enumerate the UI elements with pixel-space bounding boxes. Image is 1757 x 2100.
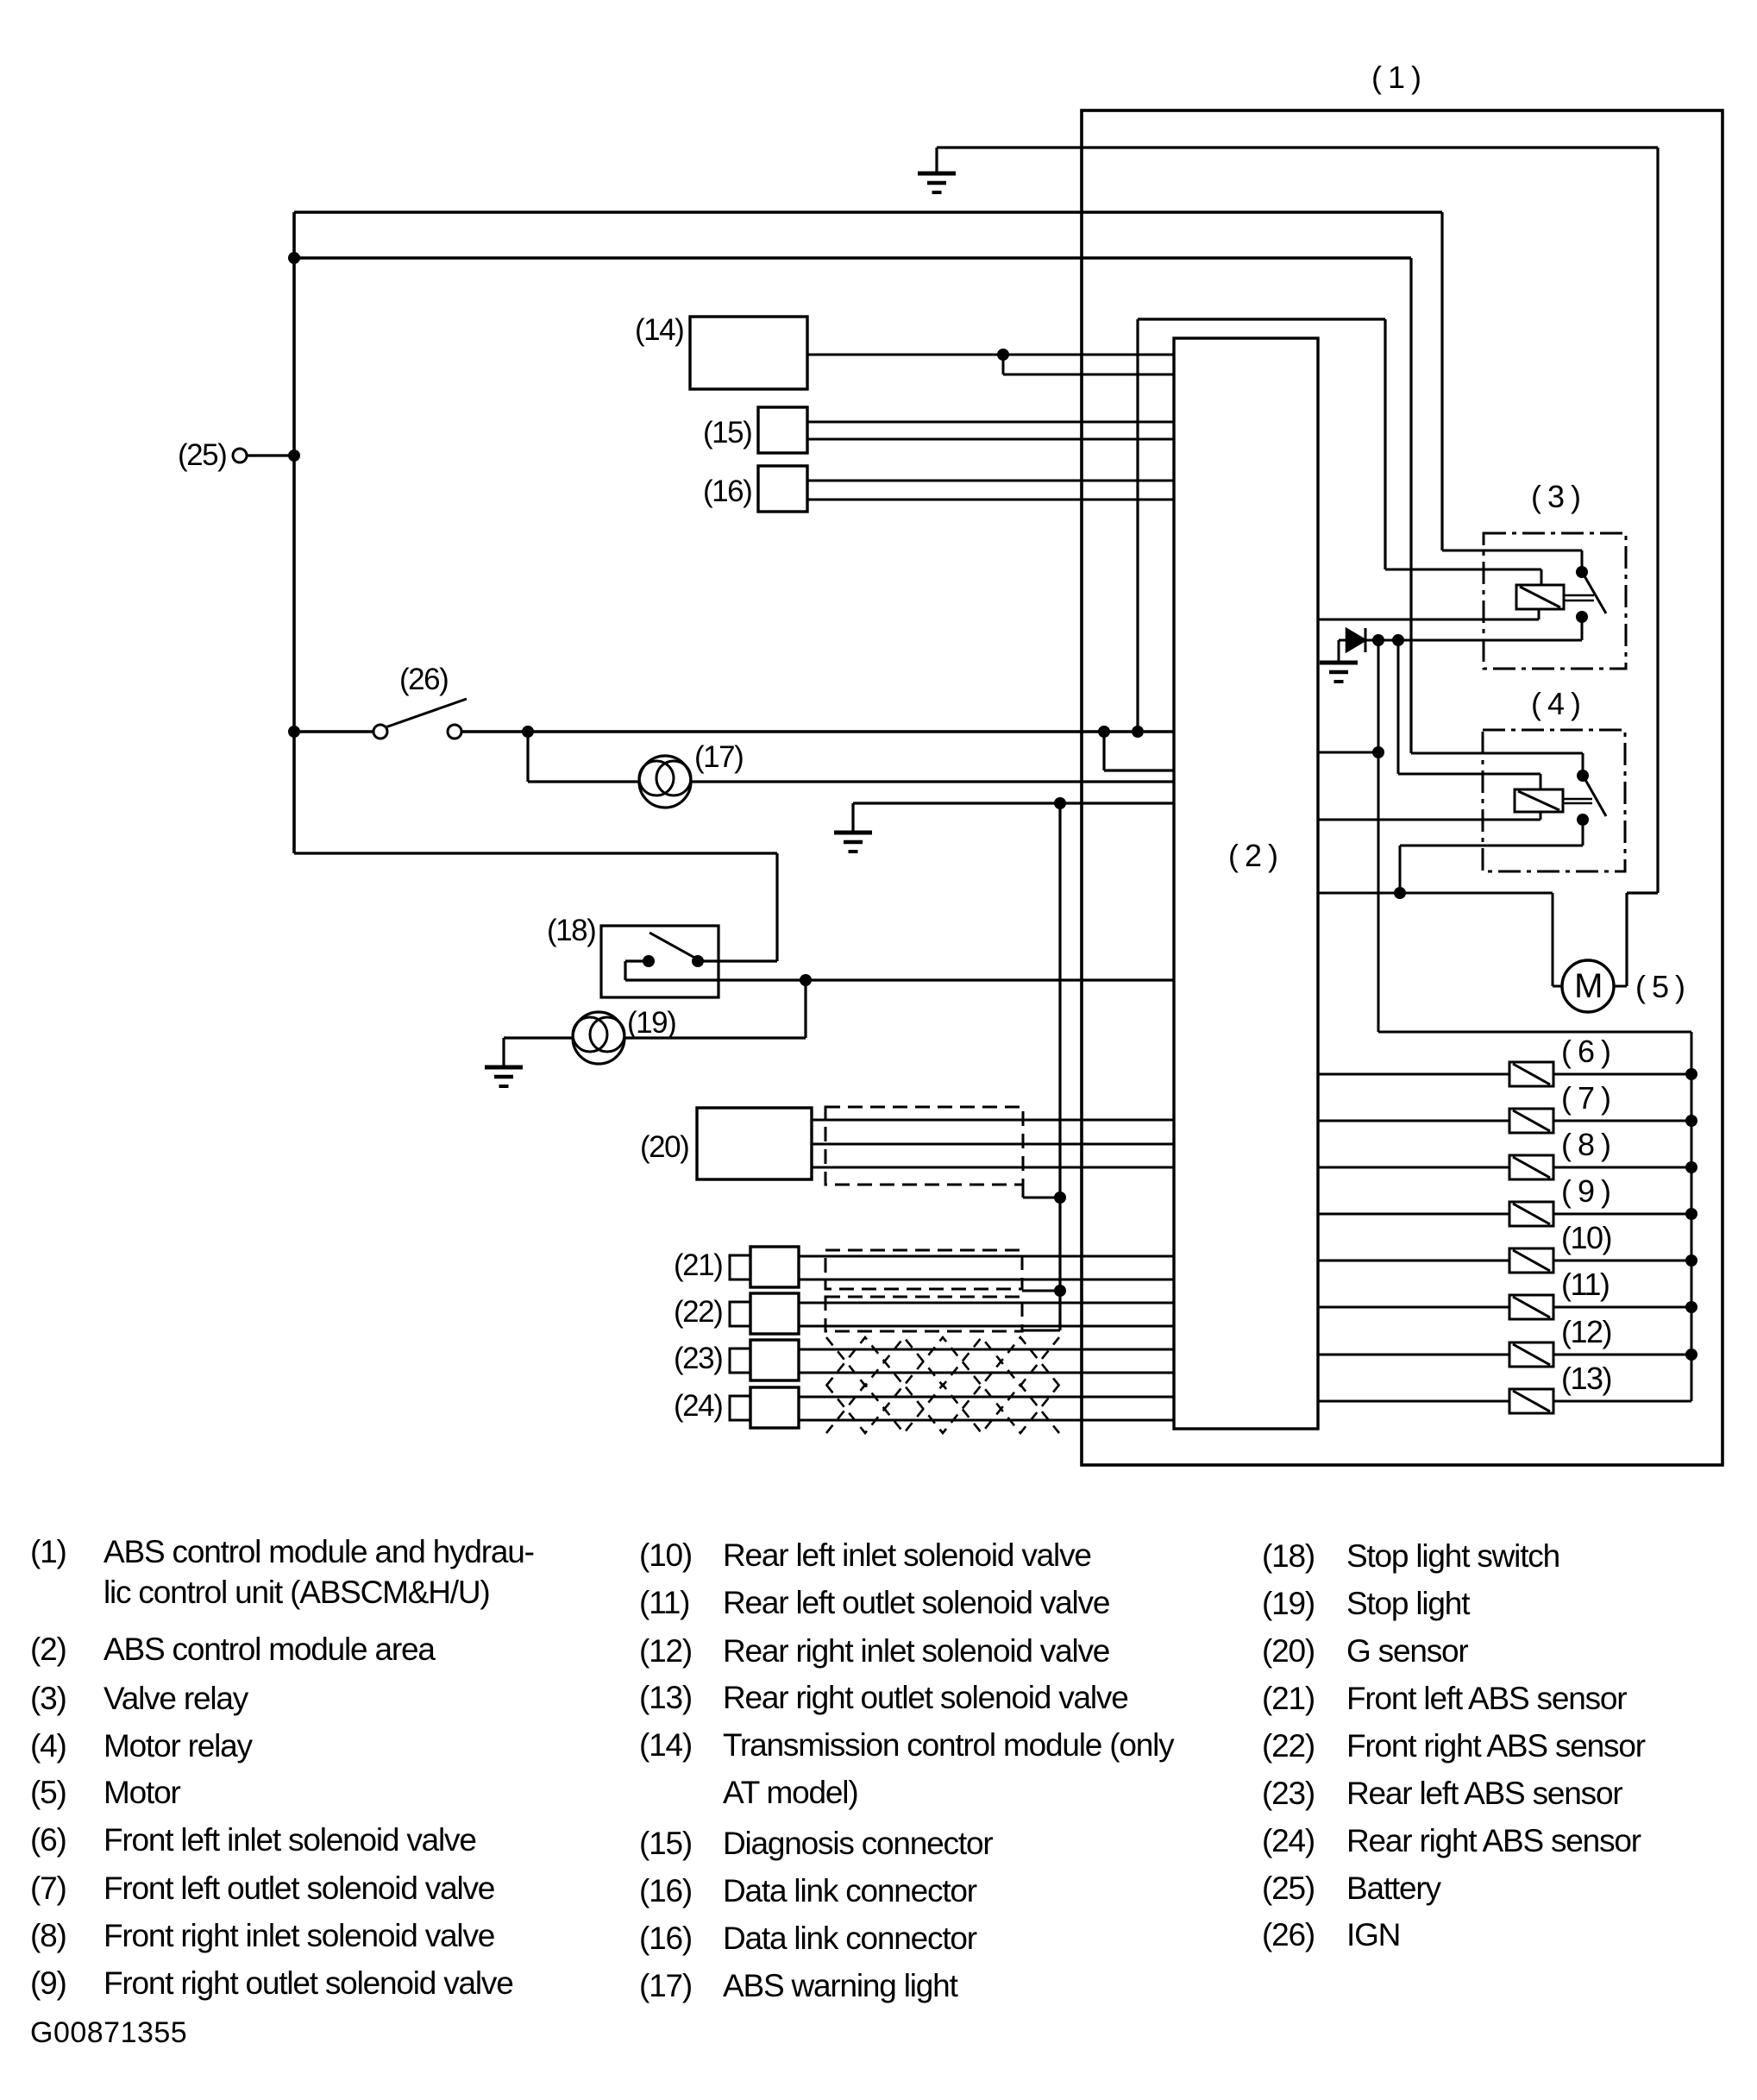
wire diode anode lead [1339, 639, 1346, 642]
wire motor return bus vertical x=1922 [1656, 148, 1659, 893]
twisted pair marks sensor 23 (a) [826, 1337, 1059, 1386]
node lamp17 tap [522, 726, 534, 738]
wire switch18 inner drop [624, 961, 626, 980]
ground (top, ABSCM ground) [918, 173, 956, 192]
svg-text:(16): (16) [703, 475, 751, 508]
wire shield drain 21 [1022, 1290, 1060, 1292]
svg-text:(19): (19) [627, 1006, 675, 1040]
wire solenoid (13) output [1553, 1400, 1691, 1403]
wire sensor (22) lower y=1537 [799, 1325, 1174, 1328]
relay (3) blade [1584, 575, 1606, 613]
wire (16) upper y=557 [807, 480, 1174, 482]
svg-text:(5): (5) [30, 1775, 66, 1810]
svg-text:(22): (22) [674, 1295, 722, 1329]
svg-text:(24): (24) [674, 1389, 722, 1423]
wire lamp17 drop x=612 [526, 732, 529, 782]
wire sensor (23) lower y=1591 [799, 1372, 1174, 1374]
svg-text:(15): (15) [703, 416, 751, 450]
switch (26) left contact [373, 725, 387, 739]
twisted pair marks sensor 23 (b) [826, 1337, 1059, 1386]
wire solenoid common vertical x=1598 [1377, 640, 1380, 1032]
wire solenoid (6) input y=1245 [1318, 1073, 1509, 1076]
sensor (22) small connector [730, 1302, 750, 1326]
relay (3) coil [1516, 585, 1564, 609]
svg-text:(25): (25) [1262, 1871, 1315, 1906]
G sensor (20) box [697, 1108, 812, 1179]
svg-text:(13): (13) [639, 1680, 692, 1715]
switch (18) right contact [692, 955, 704, 967]
wire shield/ground y=931 to box2 [853, 802, 1174, 804]
wire (15) lower y=509 [807, 438, 1174, 441]
wire battery terminal to bus [247, 454, 294, 456]
wire solenoid (10) input y=1461 [1318, 1260, 1509, 1262]
sensor (23) connector body [750, 1340, 799, 1380]
wire relay3 contact feed y=638 [1442, 550, 1582, 552]
battery terminal (25) [233, 449, 247, 462]
svg-text:(1): (1) [30, 1534, 66, 1569]
wire lamp19 drop x=934 [804, 980, 806, 1038]
wire sensor (24) lower y=1646 [799, 1419, 1174, 1422]
wire solenoid (11) output [1553, 1306, 1691, 1309]
svg-text:(10): (10) [1561, 1220, 1611, 1255]
wire TCM branch drop [1002, 355, 1005, 374]
lamp (17) ABS warning light [639, 756, 691, 808]
wire sensor (24) upper y=1619 [799, 1396, 1174, 1399]
motor relay (4) dash-dot box [1483, 730, 1625, 871]
wire battery second line y=299 [294, 256, 1411, 259]
wire relay3 contact riser [1581, 550, 1584, 572]
svg-text:(26): (26) [1262, 1917, 1315, 1952]
svg-text:(18): (18) [1262, 1538, 1315, 1574]
relay (3) plunger link upper [1564, 594, 1594, 597]
wire motor left stub [1553, 985, 1562, 988]
diode cathode bar [1365, 628, 1367, 652]
wire relay4 coil top feed y=897 [1398, 773, 1541, 776]
wire solenoid (12) output [1553, 1354, 1691, 1356]
node IGN monitor tap [1098, 726, 1110, 738]
svg-text:(12): (12) [639, 1633, 692, 1669]
wire lamp19 right lead [624, 1036, 806, 1039]
wire ground17 stem [851, 803, 854, 832]
svg-text:(11): (11) [639, 1585, 689, 1620]
sensor (21) connector body [750, 1247, 799, 1287]
wire solenoid (12) input y=1570 [1318, 1354, 1509, 1356]
solenoid valve (12) [1509, 1342, 1553, 1367]
svg-text:G00871355: G00871355 [30, 2016, 187, 2049]
wire solenoid (13) input y=1624 [1318, 1400, 1509, 1403]
ground (stop light) [485, 1067, 523, 1086]
wire relay3 coil feed vertical x=1606 [1384, 319, 1386, 569]
svg-text:(14): (14) [635, 313, 683, 347]
node battery junction [288, 450, 300, 462]
switch (18) stop light switch box [601, 926, 718, 997]
node relay4 output on motor wire [1394, 887, 1406, 899]
wire motor return jog y=1035 [1627, 891, 1658, 894]
svg-text:(20): (20) [640, 1130, 688, 1164]
wire solenoid (7) input y=1299 [1318, 1120, 1509, 1122]
wire relay3 output riser [1581, 617, 1584, 640]
node G shield junction [1054, 1191, 1066, 1204]
svg-text:G sensor: G sensor [1346, 1633, 1468, 1669]
svg-text:Front left inlet solenoid valv: Front left inlet solenoid valve [104, 1822, 476, 1858]
svg-text:Rear left inlet solenoid valve: Rear left inlet solenoid valve [723, 1537, 1091, 1573]
wire (16) lower y=579 [807, 499, 1174, 501]
solenoid valve (6) [1509, 1062, 1553, 1086]
svg-text:(4): (4) [30, 1728, 66, 1764]
wire relay3 coil top riser [1541, 569, 1543, 585]
wire sensor (23) upper y=1564 [799, 1349, 1174, 1351]
wire ground19 stem [502, 1038, 505, 1066]
wire x=1280 down [1102, 732, 1105, 770]
svg-text:(25): (25) [178, 438, 226, 472]
wire relay4 coil bottom y=950 from box2 [1318, 819, 1541, 821]
wire relay4 output y=980 [1400, 845, 1583, 847]
solenoid valve (7) [1509, 1109, 1553, 1133]
svg-text:(21): (21) [1262, 1681, 1315, 1716]
solenoid valve (8) [1509, 1155, 1553, 1179]
wire relay4 contact feed vertical x=1636 [1409, 258, 1412, 753]
relay (4) plunger link lower [1563, 802, 1592, 805]
sensor (24) connector body [750, 1387, 799, 1428]
node shield bus top [1054, 797, 1066, 809]
relay (3) plunger link lower [1564, 600, 1594, 602]
relay (4) blade [1584, 778, 1606, 816]
wire x=1319 up to y=370 [1136, 319, 1139, 732]
wire lamp19 left lead [504, 1036, 573, 1039]
node stop light tap [800, 974, 812, 986]
switch (18) blade [649, 933, 698, 959]
TCM (14) box [690, 317, 807, 389]
svg-text:( 5 ): ( 5 ) [1635, 969, 1685, 1004]
wire IGN to switch 26 [294, 730, 373, 732]
wire relay4 coil bottom riser [1540, 812, 1542, 820]
svg-text:Front right inlet solenoid val: Front right inlet solenoid valve [104, 1918, 494, 1953]
svg-text:Motor: Motor [104, 1775, 180, 1810]
svg-text:(11): (11) [1561, 1267, 1609, 1302]
wire G sensor bottom y=1353 [812, 1166, 1174, 1169]
diagnosis connector (15) box [758, 407, 807, 453]
svg-text:( 2 ): ( 2 ) [1228, 838, 1277, 873]
switch (26) blade [386, 699, 467, 727]
sensor (21) small connector [730, 1255, 750, 1279]
svg-text:(10): (10) [639, 1537, 692, 1573]
svg-text:Diagnosis connector: Diagnosis connector [723, 1826, 993, 1861]
svg-text:(12): (12) [1561, 1314, 1611, 1349]
node solenoid (11) on common bus [1685, 1301, 1697, 1313]
wire sensor (22) upper y=1510 [799, 1302, 1174, 1305]
node solenoid (10) on common bus [1685, 1254, 1697, 1267]
node solenoid (8) on common bus [1685, 1161, 1697, 1173]
sensor (22) connector body [750, 1293, 799, 1334]
svg-text:(13): (13) [1561, 1361, 1611, 1396]
wire solenoid (11) input y=1515 [1318, 1306, 1509, 1309]
wire stop light y=1136 to box2 [625, 978, 1174, 981]
wire solenoid common bus x=1961 [1691, 1032, 1693, 1401]
svg-text:(23): (23) [1262, 1776, 1315, 1811]
wire motor right riser x=1886 [1625, 893, 1628, 986]
wire relay4 coil feed vertical x=1621 [1397, 640, 1400, 774]
wire ground-top horizontal y=171 [937, 146, 1658, 148]
svg-text:(24): (24) [1262, 1823, 1315, 1858]
svg-text:Front right ABS sensor: Front right ABS sensor [1346, 1728, 1646, 1764]
svg-text:Valve relay: Valve relay [104, 1681, 249, 1716]
wire y=370 to relay3 coil feed [1138, 318, 1385, 320]
solenoid valve (9) [1509, 1202, 1553, 1226]
svg-text:Rear right outlet solenoid val: Rear right outlet solenoid valve [723, 1680, 1128, 1715]
relay (4) coil [1515, 789, 1563, 812]
wire relay4 coil top riser [1540, 774, 1542, 789]
wire shield bus vertical x=1229 [1058, 803, 1061, 1330]
twisted pair marks sensor 24 (a) [826, 1385, 1059, 1433]
svg-text:Rear right inlet solenoid valv: Rear right inlet solenoid valve [723, 1633, 1109, 1669]
node shield junction 21/22 [1054, 1285, 1066, 1297]
wire G shield drain to bus [1023, 1197, 1060, 1199]
svg-text:(19): (19) [1262, 1586, 1315, 1621]
wire switch18 left contact stub [625, 959, 649, 962]
svg-text:(21): (21) [674, 1248, 722, 1282]
wire solenoid (7) output [1553, 1120, 1691, 1122]
svg-text:Rear left outlet solenoid valv: Rear left outlet solenoid valve [723, 1585, 1109, 1620]
svg-text:( 3 ): ( 3 ) [1531, 479, 1580, 514]
shield dashed box (G sensor) [825, 1107, 1023, 1185]
node battery/y299 junction [288, 252, 300, 264]
wire solenoid (9) output [1553, 1213, 1691, 1216]
wire solenoid (8) input y=1353 [1318, 1166, 1509, 1169]
lamp (19) stop light [573, 1012, 624, 1064]
wire relay3 coil bottom riser [1538, 609, 1541, 619]
relay (4) lower contact [1577, 814, 1589, 826]
sensor (23) small connector [730, 1349, 750, 1373]
wire y=989 to stop light switch [294, 852, 777, 854]
svg-text:( 1 ): ( 1 ) [1371, 60, 1421, 95]
wire relay3 output y=742 [1365, 639, 1582, 642]
shield dashed box (sensor 22) [825, 1297, 1022, 1331]
wire solenoid common y=1196 [1378, 1031, 1691, 1034]
svg-text:( 9 ): ( 9 ) [1561, 1173, 1610, 1209]
svg-text:( 8 ): ( 8 ) [1561, 1127, 1610, 1162]
svg-text:Data link connector: Data link connector [723, 1873, 977, 1908]
wire y=893 into box2 [1104, 769, 1174, 771]
svg-text:( 4 ): ( 4 ) [1531, 686, 1580, 721]
svg-text:Front left ABS sensor: Front left ABS sensor [1346, 1681, 1627, 1716]
wire G shield drain drop [1022, 1185, 1025, 1198]
wire TCM y=434 to box2 [1003, 374, 1174, 376]
svg-text:(2): (2) [30, 1632, 66, 1667]
wire ground-top stem [935, 148, 938, 173]
svg-text:Front right outlet solenoid va: Front right outlet solenoid valve [104, 1965, 513, 2001]
twisted pair marks sensor 24 (b) [826, 1385, 1059, 1433]
wire battery top line y=246 [294, 211, 1442, 214]
svg-text:Data link connector: Data link connector [723, 1921, 977, 1956]
svg-text:(15): (15) [639, 1826, 692, 1861]
switch (26) right contact [448, 725, 461, 739]
svg-text:(20): (20) [1262, 1633, 1315, 1669]
svg-text:(3): (3) [30, 1681, 66, 1716]
data link connector (16) box [758, 466, 807, 512]
wire lamp17 left lead [528, 780, 639, 783]
wire G sensor top y=1298 [812, 1119, 1174, 1122]
wire box2 monitor y=872 [1318, 751, 1378, 754]
wire battery vertical x=341 [292, 212, 296, 853]
node relay feed tap [1132, 726, 1144, 738]
wire motor right stub [1614, 985, 1627, 988]
solenoid valve (13) [1509, 1389, 1553, 1413]
wire relay3 contact feed vertical x=1672 [1440, 212, 1443, 550]
diode (freewheel, near relay 3) [1346, 629, 1365, 651]
svg-text:(17): (17) [694, 740, 743, 774]
wire relay4 contact riser [1582, 753, 1584, 776]
svg-text:Front left outlet solenoid val: Front left outlet solenoid valve [104, 1871, 494, 1906]
wire shield drain 22 [1022, 1330, 1060, 1332]
wire relay4 output riser [1582, 820, 1584, 846]
box (1) ABSCM&H/U outline [1082, 110, 1722, 1465]
svg-text:Stop light switch: Stop light switch [1346, 1538, 1559, 1574]
box (2) ABS control module area outline [1174, 338, 1318, 1429]
svg-text:(7): (7) [30, 1871, 66, 1906]
svg-text:Rear left ABS sensor: Rear left ABS sensor [1346, 1776, 1622, 1811]
wire diode ground stem [1338, 640, 1340, 663]
node TCM branch [997, 349, 1009, 361]
svg-text:(9): (9) [30, 1965, 66, 2001]
svg-text:ABS control module and hydrau-: ABS control module and hydrau- [104, 1534, 534, 1569]
svg-text:ABS control module area: ABS control module area [104, 1632, 436, 1667]
svg-text:Rear right ABS sensor: Rear right ABS sensor [1346, 1823, 1641, 1858]
svg-text:ABS warning light: ABS warning light [723, 1968, 959, 2003]
relay (4) plunger link upper [1563, 798, 1592, 801]
node solenoid (12) on common bus [1685, 1349, 1697, 1361]
svg-text:(16): (16) [639, 1873, 692, 1908]
wire solenoid (10) output [1553, 1260, 1691, 1262]
svg-text:(22): (22) [1262, 1728, 1315, 1764]
svg-text:AT model): AT model) [723, 1775, 857, 1810]
wire relay3 coil top feed y=660 [1385, 569, 1541, 571]
svg-text:Transmission control module (o: Transmission control module (only [723, 1727, 1175, 1763]
wire TCM y=411 to box2 [807, 354, 1174, 356]
shield dashed box (sensor 21) [825, 1250, 1022, 1289]
wire motor left riser x=1800 [1552, 893, 1554, 986]
svg-text:(23): (23) [674, 1342, 722, 1375]
valve relay (3) dash-dot box [1484, 533, 1626, 669]
wire lamp17 right lead to box2 [691, 780, 1174, 783]
wire solenoid (8) output [1553, 1166, 1691, 1169]
relay (4) upper contact [1577, 770, 1589, 782]
node relay4 coil tap [1392, 634, 1404, 646]
ground (near box2) [834, 833, 872, 852]
wire motor feed y=1035 from box2 [1318, 892, 1553, 895]
svg-text:(26): (26) [399, 663, 448, 696]
svg-text:Stop light: Stop light [1346, 1586, 1471, 1621]
relay (3) upper contact [1576, 566, 1588, 578]
wire (15) upper y=489 [807, 421, 1174, 424]
motor (5) circle [1562, 960, 1614, 1012]
svg-text:(18): (18) [547, 914, 595, 947]
node IGN junction on battery bus [288, 726, 300, 738]
svg-text:lic control unit (ABSCM&H/U): lic control unit (ABSCM&H/U) [104, 1575, 490, 1610]
wire relay4 output drop x=1623 [1399, 846, 1402, 893]
solenoid valve (11) [1509, 1295, 1553, 1319]
svg-text:(14): (14) [639, 1727, 692, 1763]
svg-text:M: M [1574, 967, 1602, 1005]
svg-text:Motor relay: Motor relay [104, 1728, 254, 1764]
ground (diode) [1320, 663, 1358, 682]
svg-text:(16): (16) [639, 1921, 692, 1956]
node monitor junction [1372, 746, 1384, 758]
relay (3) lower contact [1576, 611, 1588, 623]
svg-text:Battery: Battery [1346, 1871, 1442, 1906]
switch (18) left contact [643, 955, 655, 967]
wire sensor (21) lower y=1483 [799, 1279, 1174, 1281]
svg-text:( 7 ): ( 7 ) [1561, 1080, 1610, 1116]
svg-text:(17): (17) [639, 1968, 692, 2003]
wire sensor (21) upper y=1456 [799, 1255, 1174, 1258]
solenoid valve (10) [1509, 1248, 1553, 1273]
wire solenoid (6) output [1553, 1073, 1691, 1076]
svg-text:( 6 ): ( 6 ) [1561, 1034, 1610, 1069]
node solenoid (7) on common bus [1685, 1115, 1697, 1127]
wire solenoid (9) input y=1407 [1318, 1213, 1509, 1216]
wire relay3 coil bottom y=718 from box2 [1318, 619, 1539, 621]
node solenoid (6) on common bus [1685, 1068, 1697, 1080]
wire vertical x=901 [775, 853, 778, 961]
svg-text:(6): (6) [30, 1822, 66, 1858]
wire y=1114 into switch 18 [698, 959, 777, 962]
sensor (24) small connector [730, 1396, 750, 1420]
node solenoid (9) on common bus [1685, 1208, 1697, 1220]
wire G sensor mid y=1326 [812, 1143, 1174, 1146]
svg-text:(8): (8) [30, 1918, 66, 1953]
svg-text:IGN: IGN [1346, 1917, 1400, 1952]
wire IGN y=848 to box2 [461, 730, 1174, 732]
node solenoid feed tap [1372, 634, 1384, 646]
wire relay4 contact feed y=873 [1411, 752, 1583, 755]
